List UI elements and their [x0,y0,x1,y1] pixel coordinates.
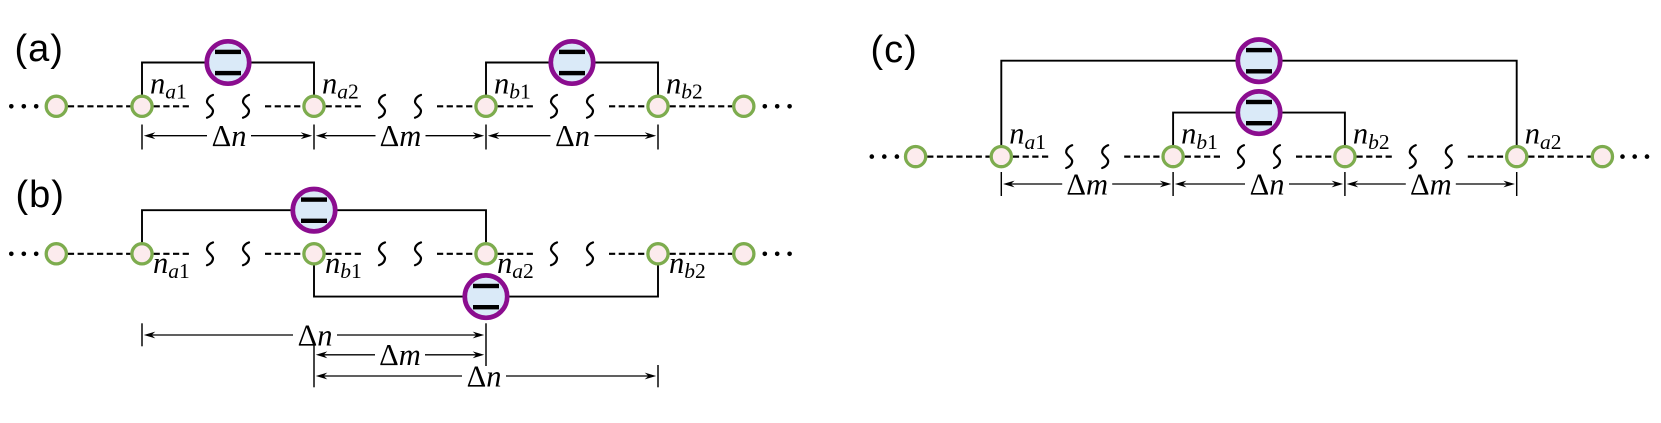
svg-text:na1: na1 [1009,117,1046,154]
ellipsis dots c right [1620,154,1649,159]
node a n_a2 [304,96,324,116]
svg-text:Δn: Δn [212,119,247,153]
svg-text:Δm: Δm [380,119,422,153]
svg-text:na1: na1 [153,246,190,283]
chain-break squiggle c-s4 [1274,145,1280,168]
arrow tick mark c t3 [1344,172,1346,196]
dimension arrow a dm [316,119,484,153]
svg-text:Δn: Δn [467,359,502,393]
arrow tick mark a t3 [485,125,487,150]
wire dashed chain segment c-0 [927,156,990,158]
node b n_a2 [476,244,496,264]
dimension arrow a dn2 [488,119,656,153]
svg-text:Δn: Δn [298,318,333,352]
chain-break squiggle a-s1 [207,95,213,118]
node a n_a1 [132,96,152,116]
wire dashed chain segment a-3 [326,105,363,107]
node a end-left [46,96,66,116]
chain-break squiggle b-s6 [587,242,593,265]
wire dashed chain segment c-2 [1124,156,1161,158]
dimension arrow c dm1 [1003,167,1171,201]
chain-break squiggle c-s5 [1410,145,1416,168]
chain-break squiggle a-s3 [379,95,385,118]
svg-text:(b): (b) [16,174,65,216]
wire dashed chain segment a-5 [498,105,535,107]
two-level atom a U2 [551,41,593,83]
svg-text:Δm: Δm [379,338,421,372]
arrow tick mark a t4 [657,125,659,150]
arrow tick mark b t1 [141,323,143,346]
wire coupling bracket a U2 [486,63,658,96]
wire dashed chain segment a-2 [265,105,302,107]
chain-break squiggle a-s4 [415,95,421,118]
wire dashed chain segment c-1 [1013,156,1050,158]
wire dashed chain segment b-2 [265,253,302,255]
wire dashed chain segment c-6 [1468,156,1505,158]
svg-text:na2: na2 [322,66,359,103]
ellipsis dots a left [9,104,39,109]
arrow tick mark c t2 [1172,172,1174,196]
node b end-right [734,244,754,264]
two-level atom c U1 [1238,40,1280,82]
wire coupling bracket c U2 inner [1173,113,1345,146]
node c n_b1 [1163,147,1183,167]
wire coupling bracket b U1 top [142,210,486,243]
wire dashed chain segment b-6 [609,253,646,255]
svg-text:nb1: nb1 [1181,117,1218,154]
node b end-left [46,244,66,264]
two-level atom c U2 [1238,91,1280,133]
svg-text:na2: na2 [497,246,534,283]
arrow tick mark c t4 [1516,172,1518,196]
chain-break squiggle c-s2 [1102,145,1108,168]
dimension arrow a dn1 [144,119,312,153]
wire dashed chain segment c-5 [1357,156,1394,158]
arrow tick mark c t1 [1000,172,1002,196]
chain-break squiggle b-s2 [243,242,249,265]
ellipsis dots c left [870,154,900,159]
node c end-right [1592,147,1612,167]
wire dashed chain segment a-7 [670,105,733,107]
svg-text:nb1: nb1 [325,246,362,283]
node b n_b1 [304,244,324,264]
two-level atom b U1 [293,189,335,231]
arrow tick mark b t2 [485,323,487,366]
node c n_a1 [991,147,1011,167]
node b n_a1 [132,244,152,264]
node a n_b2 [648,96,668,116]
svg-text:Δn: Δn [555,119,590,153]
wire dashed chain segment b-4 [437,253,474,255]
wire dashed chain segment a-6 [609,105,646,107]
ellipsis dots b left [9,252,39,257]
svg-text:na2: na2 [1525,117,1562,154]
arrow tick mark a t1 [141,125,143,150]
chain-break squiggle b-s3 [379,242,385,265]
chain-break squiggle a-s5 [551,95,557,118]
dimension arrow c dn [1175,167,1343,201]
chain-break squiggle c-s6 [1446,145,1452,168]
chain-break squiggle a-s2 [243,95,249,118]
svg-text:(c): (c) [871,29,918,71]
dimension arrow b dm [316,338,484,372]
wire coupling bracket b U2 bottom [314,265,658,297]
wire dashed chain segment b-7 [670,253,733,255]
wire dashed chain segment b-0 [68,253,130,255]
node a end-right [734,96,754,116]
two-level atom b U2 [465,275,507,317]
svg-text:nb2: nb2 [1353,117,1390,154]
arrow tick mark b t4 [657,365,659,387]
svg-text:nb2: nb2 [666,66,703,103]
dimension arrow c dm2 [1347,167,1515,201]
wire dashed chain segment b-1 [154,253,191,255]
chain-break squiggle b-s5 [551,242,557,265]
node a n_b1 [476,96,496,116]
chain-break squiggle c-s1 [1066,145,1072,168]
node b n_b2 [648,244,668,264]
svg-text:Δm: Δm [1410,167,1452,201]
ellipsis dots b right [763,252,792,257]
wire coupling bracket c U1 outer [1001,61,1516,146]
dimension arrow b dn1 [144,318,484,352]
wire dashed chain segment c-3 [1185,156,1222,158]
node c n_b2 [1335,147,1355,167]
wire dashed chain segment a-0 [68,105,130,107]
dimension arrow b dn2 [316,359,656,393]
two-level atom a U1 [207,41,249,83]
node c end-left [906,147,926,167]
svg-text:nb2: nb2 [669,246,706,283]
arrow tick mark b t3 [313,344,315,388]
wire dashed chain segment c-4 [1296,156,1333,158]
chain-break squiggle a-s6 [587,95,593,118]
ellipsis dots a right [763,104,792,109]
chain-break squiggle b-s4 [415,242,421,265]
svg-text:nb1: nb1 [494,66,531,103]
wire dashed chain segment a-1 [154,105,191,107]
arrow tick mark a t2 [313,125,315,150]
wire dashed chain segment c-7 [1528,156,1591,158]
chain-break squiggle b-s1 [207,242,213,265]
svg-text:Δm: Δm [1066,167,1108,201]
wire dashed chain segment b-3 [326,253,363,255]
svg-text:(a): (a) [15,28,64,70]
node c n_a2 [1507,147,1527,167]
svg-text:Δn: Δn [1250,167,1285,201]
wire dashed chain segment a-4 [437,105,474,107]
wire dashed chain segment b-5 [498,253,535,255]
svg-text:na1: na1 [150,66,187,103]
chain-break squiggle c-s3 [1238,145,1244,168]
wire coupling bracket a U1 [142,63,314,96]
